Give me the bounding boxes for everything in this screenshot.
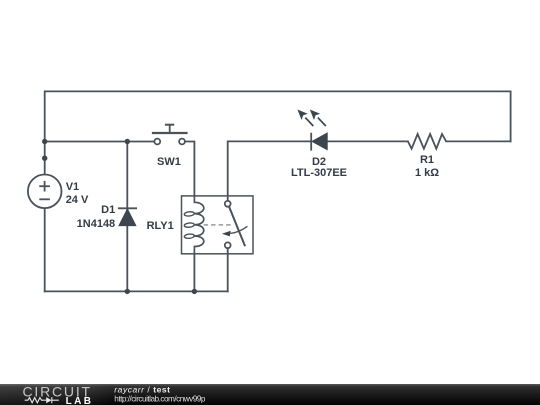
- wire LED to R1: [327, 140, 408, 142]
- LED arrow 2: [310, 110, 326, 127]
- LED arrow 1: [297, 110, 313, 127]
- relay dashed link: [204, 224, 232, 226]
- relay contact top: [225, 201, 231, 207]
- footer bar: [0, 384, 540, 405]
- wire relay switch top to LED rail: [228, 141, 310, 200]
- svg-text:1 kΩ: 1 kΩ: [415, 167, 439, 179]
- node A junction dots left column: [42, 139, 47, 161]
- svg-text:LTL-307EE: LTL-307EE: [291, 167, 347, 179]
- wire D1 vertical: [126, 142, 128, 292]
- wire relay switch bottom: [227, 248, 229, 291]
- wire middle rail left: [45, 141, 155, 143]
- relay coil: [194, 196, 203, 254]
- switch SW1: [152, 125, 188, 145]
- svg-text:24 V: 24 V: [66, 194, 89, 206]
- wire relay coil bottom: [193, 254, 195, 292]
- relay contact bottom: [225, 242, 231, 248]
- wire V1 bottom: [44, 208, 46, 292]
- svg-text:SW1: SW1: [157, 156, 181, 168]
- svg-text:raycarr / test: raycarr / test: [114, 384, 170, 394]
- svg-text:R1: R1: [420, 154, 434, 166]
- relay box: [182, 196, 254, 254]
- node C junction dots bottom rail: [125, 289, 197, 294]
- svg-text:1N4148: 1N4148: [77, 218, 116, 230]
- LED D2: [297, 110, 327, 151]
- node B junction dot D1 top: [125, 139, 130, 144]
- wire top rail: [45, 91, 511, 175]
- svg-text:RLY1: RLY1: [147, 220, 174, 232]
- relay RLY1: [182, 196, 254, 254]
- diode D1: [118, 208, 137, 225]
- relay arm: [229, 206, 245, 246]
- voltage source V1: [28, 175, 62, 209]
- wire R1 to right vertical: [446, 140, 510, 142]
- wire bottom rail: [45, 290, 228, 292]
- relay arrow: [230, 226, 247, 233]
- svg-text:V1: V1: [66, 181, 79, 193]
- svg-text:LAB: LAB: [66, 396, 94, 405]
- resistor R1: [408, 134, 446, 149]
- CircuitLab logo symbol: [25, 397, 59, 403]
- wire SW1 right to relay coil: [185, 142, 195, 196]
- svg-text:D1: D1: [101, 204, 115, 216]
- svg-text:http://circuitlab.com/cnwv99p: http://circuitlab.com/cnwv99p: [114, 394, 206, 403]
